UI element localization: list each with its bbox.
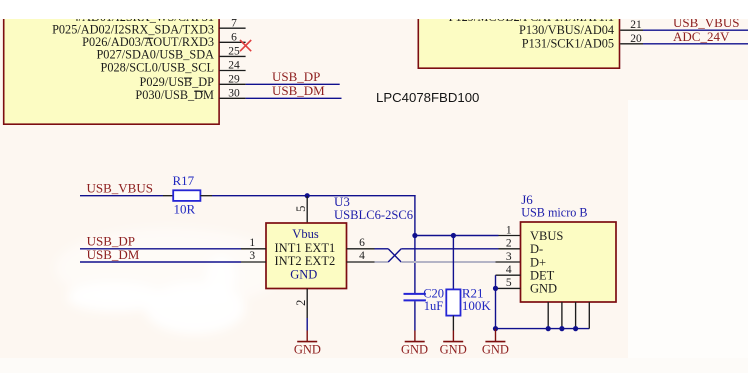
svg-text:10R: 10R [174,201,196,216]
svg-text:USB_DM: USB_DM [272,83,325,98]
svg-text:GND: GND [440,343,467,357]
svg-text:GND: GND [294,343,321,357]
svg-text:P131/SCK1/AD05: P131/SCK1/AD05 [522,37,614,51]
svg-text:EXT2: EXT2 [305,254,336,268]
svg-text:21: 21 [630,19,642,31]
svg-text:2: 2 [506,238,512,250]
svg-text:6: 6 [359,237,365,249]
svg-text:4: 4 [359,250,365,262]
svg-text:Vbus: Vbus [292,227,319,241]
svg-text:25: 25 [228,46,240,58]
svg-text:ADC_24V: ADC_24V [673,29,730,44]
svg-text:DET: DET [530,269,555,283]
svg-text:USB_DP: USB_DP [272,69,320,84]
svg-text:U3: U3 [334,194,350,209]
svg-text:30: 30 [228,88,240,100]
svg-text:5: 5 [294,206,308,212]
svg-text:P030/USB_DM: P030/USB_DM [135,88,214,102]
svg-text:5: 5 [506,277,512,289]
svg-text:GND: GND [401,343,428,357]
svg-text:29: 29 [228,74,240,86]
svg-text:20: 20 [630,33,642,45]
svg-text:1uF: 1uF [424,299,444,313]
svg-text:P028/SCL0/USB_SCL: P028/SCL0/USB_SCL [101,60,214,74]
svg-text:P130/VBUS/AD04: P130/VBUS/AD04 [519,23,614,37]
svg-text:R17: R17 [173,173,195,188]
svg-text:6: 6 [231,32,237,44]
svg-text:3: 3 [506,251,512,263]
svg-text:INT1: INT1 [275,241,302,255]
svg-text:GND: GND [290,268,317,282]
svg-text:USB_VBUS: USB_VBUS [87,180,153,195]
svg-text:USB_DM: USB_DM [87,247,140,262]
svg-text:VBUS: VBUS [530,229,563,243]
svg-text:1: 1 [506,224,512,236]
svg-text:P027/SDA0/USB_SDA: P027/SDA0/USB_SDA [96,47,214,61]
svg-text:LPC4078FBD100: LPC4078FBD100 [376,90,479,105]
svg-text:D-: D- [530,242,543,256]
svg-text:USBLC6-2SC6: USBLC6-2SC6 [334,208,413,222]
svg-text:INT2: INT2 [275,254,302,268]
svg-text:100K: 100K [462,298,492,313]
svg-text:24: 24 [228,60,240,72]
svg-text:3: 3 [249,250,255,262]
svg-text:D+: D+ [530,255,546,269]
svg-text:P029/USB_DP: P029/USB_DP [140,75,215,89]
svg-text:GND: GND [530,282,557,296]
svg-text:2: 2 [294,300,308,306]
svg-text:EXT1: EXT1 [305,241,336,255]
svg-text:USB micro B: USB micro B [521,206,587,220]
svg-text:7: 7 [231,17,237,29]
svg-text:4: 4 [506,264,512,276]
svg-text:1: 1 [249,237,255,249]
svg-text:GND: GND [482,343,509,357]
